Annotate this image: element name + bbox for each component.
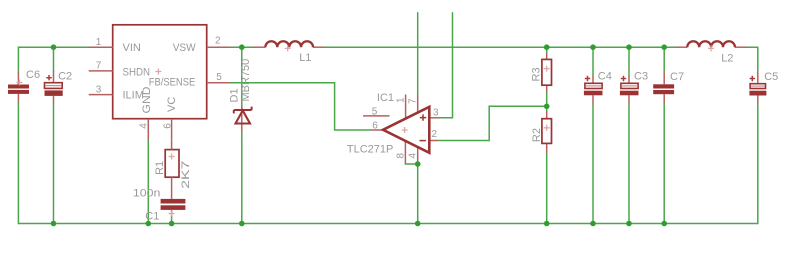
svg-text:C6: C6 xyxy=(26,69,40,81)
svg-text:R3: R3 xyxy=(530,67,542,81)
svg-text:R2: R2 xyxy=(531,128,543,142)
svg-text:D1: D1 xyxy=(228,88,240,102)
svg-text:5: 5 xyxy=(216,72,222,83)
svg-text:4: 4 xyxy=(408,153,419,159)
svg-text:6: 6 xyxy=(163,123,174,129)
svg-text:VIN: VIN xyxy=(123,42,141,54)
svg-text:2: 2 xyxy=(215,35,221,46)
svg-text:3: 3 xyxy=(96,84,102,95)
svg-text:4: 4 xyxy=(139,123,150,129)
svg-text:L2: L2 xyxy=(721,53,733,65)
svg-text:C7: C7 xyxy=(670,71,684,83)
svg-text:6: 6 xyxy=(372,121,378,132)
svg-text:8: 8 xyxy=(395,153,406,159)
svg-text:7: 7 xyxy=(96,61,102,72)
svg-text:3: 3 xyxy=(433,107,439,118)
svg-text:2: 2 xyxy=(432,129,438,140)
svg-text:SHDN: SHDN xyxy=(123,67,151,79)
svg-text:5: 5 xyxy=(372,106,378,117)
svg-text:C3: C3 xyxy=(634,70,648,82)
svg-text:VC: VC xyxy=(166,97,178,112)
svg-text:1: 1 xyxy=(96,37,102,48)
svg-text:1: 1 xyxy=(395,97,406,103)
svg-text:2K7: 2K7 xyxy=(180,161,192,189)
svg-text:7: 7 xyxy=(408,98,419,104)
svg-text:MBR750: MBR750 xyxy=(240,59,252,102)
svg-text:TLC271P: TLC271P xyxy=(347,143,393,155)
svg-text:C5: C5 xyxy=(764,71,778,83)
svg-text:C4: C4 xyxy=(598,70,612,82)
svg-text:VSW: VSW xyxy=(173,42,197,54)
svg-text:C1: C1 xyxy=(145,211,159,223)
svg-text:L1: L1 xyxy=(299,52,311,64)
svg-text:C2: C2 xyxy=(58,70,72,82)
svg-text:100n: 100n xyxy=(133,187,161,199)
svg-text:R1: R1 xyxy=(154,161,166,175)
svg-text:IC1: IC1 xyxy=(377,92,394,104)
svg-text:GND: GND xyxy=(141,86,153,113)
svg-text:FB/SENSE: FB/SENSE xyxy=(149,77,196,89)
